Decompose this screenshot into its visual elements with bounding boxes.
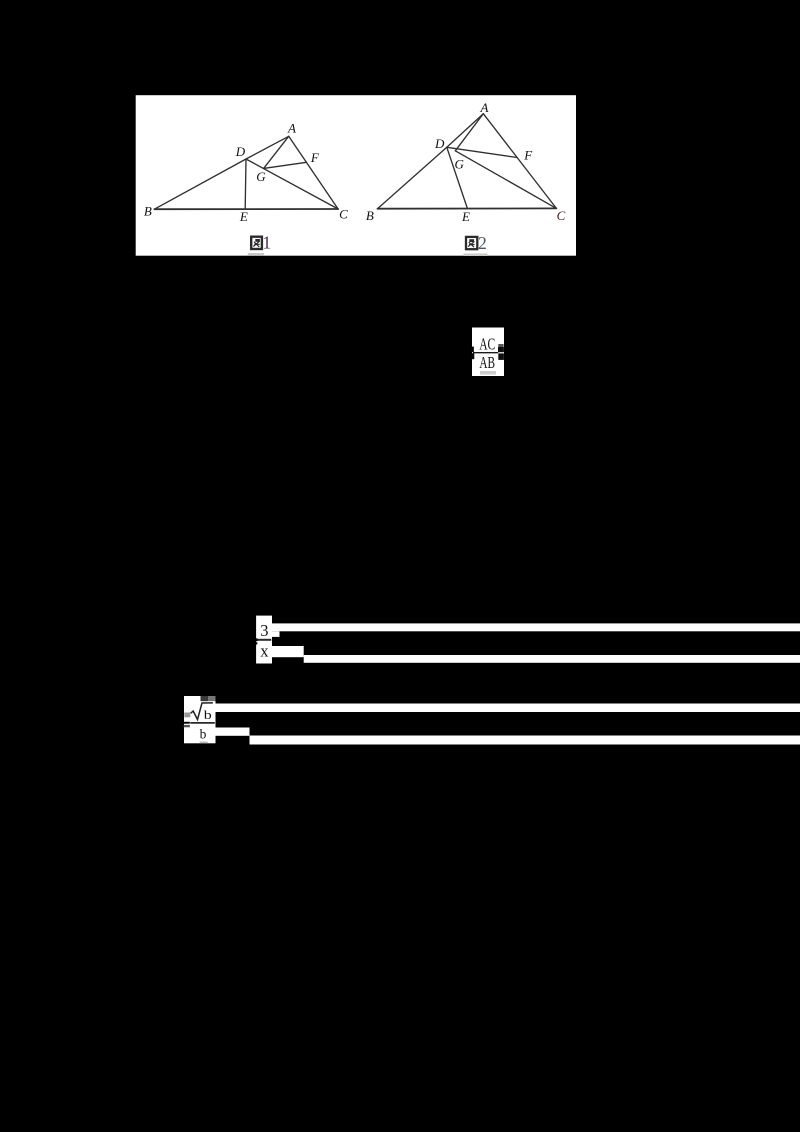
svg-text:b: b [204,708,212,722]
svg-text:2: 2 [478,233,487,253]
svg-text:F: F [523,147,533,162]
svg-text:1: 1 [262,233,271,253]
svg-text:A: A [287,121,296,136]
svg-text:D: D [434,136,445,151]
svg-text:B: B [144,204,152,219]
svg-text:G: G [455,156,465,171]
svg-text:A: A [480,100,489,115]
svg-text:C: C [557,208,566,223]
svg-text:AB: AB [479,353,495,372]
svg-text:B: B [366,208,374,223]
svg-text:x: x [260,641,269,660]
svg-text:G: G [256,169,266,184]
svg-text:C: C [339,207,348,222]
svg-text:F: F [310,150,320,165]
svg-text:D: D [235,144,246,159]
svg-text:b: b [200,727,207,742]
svg-text:3: 3 [260,621,268,640]
svg-text:E: E [461,209,470,224]
svg-text:E: E [239,209,248,224]
svg-text:AC: AC [479,334,495,353]
